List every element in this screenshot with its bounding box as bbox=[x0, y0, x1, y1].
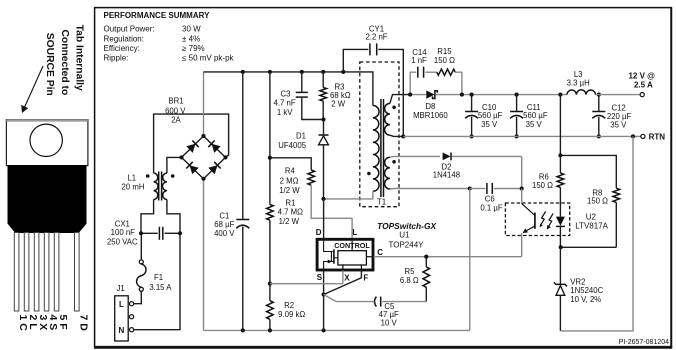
wire CX1 to L1 right bbox=[167, 200, 180, 234]
svg-text:C: C bbox=[377, 248, 383, 257]
feedback takeoff bbox=[558, 95, 562, 158]
svg-text:D8: D8 bbox=[425, 102, 435, 111]
inductor L3 3.3 uH bbox=[558, 70, 595, 97]
node clamp join bbox=[321, 117, 325, 121]
bridge rectifier BR1 600 V 2A bbox=[165, 97, 227, 181]
svg-text:10 V, 2%: 10 V, 2% bbox=[570, 295, 601, 304]
svg-text:150 Ω: 150 Ω bbox=[434, 56, 455, 65]
svg-text:9.09 kΩ: 9.09 kΩ bbox=[278, 310, 305, 319]
node R4 tap bbox=[268, 156, 272, 160]
wire R4 to L pin bbox=[311, 185, 352, 238]
IC U1 TOP244Y TOPSwitch-GX block bbox=[317, 239, 373, 270]
TO-220 package tab note text bbox=[44, 25, 84, 96]
svg-text:6.8 Ω: 6.8 Ω bbox=[400, 276, 419, 285]
svg-text:N: N bbox=[119, 326, 125, 335]
svg-text:C6: C6 bbox=[485, 194, 495, 203]
TO-220 package tab bbox=[6, 120, 88, 166]
node CY1-RTN junction bbox=[401, 134, 405, 138]
resistor R5 6.8 ohm bbox=[400, 257, 430, 302]
capacitor C12 220 uF 35 V bbox=[592, 93, 631, 139]
svg-text:Tab Internally: Tab Internally bbox=[74, 25, 85, 91]
svg-text:C3: C3 bbox=[281, 89, 291, 98]
svg-text:Efficiency:: Efficiency: bbox=[104, 44, 140, 53]
svg-text:35 V: 35 V bbox=[481, 120, 498, 129]
svg-text:35 V: 35 V bbox=[526, 120, 543, 129]
svg-text:T1: T1 bbox=[377, 197, 387, 206]
wire CY1 to RTN bbox=[378, 49, 403, 136]
wire J1 L to fuse bbox=[134, 291, 142, 303]
TO-220 body bbox=[8, 166, 86, 233]
zener VR2 1N5240C bbox=[554, 247, 604, 331]
svg-text:TOPSwitch-GX: TOPSwitch-GX bbox=[377, 221, 436, 231]
RTN rail and terminal bbox=[403, 132, 665, 141]
svg-text:R4: R4 bbox=[285, 167, 296, 176]
svg-text:0.1 µF: 0.1 µF bbox=[480, 203, 502, 212]
pin labels 1C 2L 3X 4S 5F 7D bbox=[17, 315, 89, 332]
resistor R2 9.09 kohm bbox=[267, 301, 306, 331]
resistor R1 4.7 Mohm 1/2 W bbox=[267, 72, 304, 301]
svg-text:L1: L1 bbox=[127, 173, 136, 182]
svg-text:12 V @: 12 V @ bbox=[628, 71, 655, 80]
svg-text:400 V: 400 V bbox=[214, 229, 235, 238]
node X tap bbox=[268, 282, 272, 286]
svg-text:U2: U2 bbox=[586, 213, 597, 222]
resistor R4 2 Mohm 1/2 W bbox=[270, 158, 315, 195]
node snubber junctions bbox=[408, 93, 464, 97]
svg-text:2 MΩ: 2 MΩ bbox=[280, 177, 299, 186]
wire fuse to CX1 bbox=[140, 233, 142, 260]
resistor R6 150 ohm bbox=[532, 155, 564, 190]
svg-text:F: F bbox=[363, 273, 368, 282]
svg-text:≥ 79%: ≥ 79% bbox=[182, 44, 205, 53]
svg-text:D1: D1 bbox=[296, 132, 306, 141]
svg-text:7 D: 7 D bbox=[77, 315, 89, 332]
svg-text:35 V: 35 V bbox=[610, 121, 627, 130]
svg-text:2.5 A: 2.5 A bbox=[634, 80, 653, 89]
diode D2 1N4148 bbox=[433, 153, 522, 189]
transformer T1 box bbox=[360, 62, 399, 207]
capacitor C1 68 uF 400 V bbox=[214, 72, 249, 331]
capacitor CY1 2.2 nF bbox=[343, 25, 387, 72]
svg-text:5 F: 5 F bbox=[57, 315, 69, 331]
diode D1 UF4005 bbox=[278, 120, 328, 199]
junction CX1 left bbox=[139, 231, 143, 235]
svg-text:4.7 MΩ: 4.7 MΩ bbox=[278, 208, 303, 217]
fuse F1 3.15 A bbox=[137, 260, 173, 292]
svg-text:U1: U1 bbox=[399, 230, 410, 239]
wire bias return bbox=[469, 189, 471, 331]
T1 bias winding bbox=[385, 156, 470, 189]
svg-text:10 V: 10 V bbox=[381, 318, 398, 327]
svg-text:250 VAC: 250 VAC bbox=[107, 237, 138, 246]
U1 pin labels bbox=[316, 228, 384, 283]
svg-text:≤ 50 mV pk-pk: ≤ 50 mV pk-pk bbox=[182, 54, 235, 63]
TO-220 mounting hole bbox=[30, 124, 62, 156]
svg-text:150 Ω: 150 Ω bbox=[532, 181, 553, 190]
svg-text:Output Power:: Output Power: bbox=[104, 25, 155, 34]
T1 secondary winding bbox=[385, 95, 411, 137]
wire X pin bbox=[270, 271, 343, 284]
optocoupler U2 LTV817A bbox=[505, 203, 608, 236]
capacitor C10 560 uF 35 V bbox=[465, 93, 503, 139]
svg-text:MBR1060: MBR1060 bbox=[413, 111, 448, 120]
wire drain bbox=[321, 197, 325, 239]
svg-text:PERFORMANCE SUMMARY: PERFORMANCE SUMMARY bbox=[104, 11, 211, 20]
wire primary bottom to drain node bbox=[324, 191, 373, 199]
svg-text:30 W: 30 W bbox=[182, 25, 201, 34]
wire L1 left to bridge right vertex bbox=[154, 114, 229, 173]
snubber R15 150 ohm bbox=[434, 47, 462, 95]
svg-text:1/2 W: 1/2 W bbox=[279, 217, 300, 226]
svg-text:1 kV: 1 kV bbox=[277, 108, 293, 117]
svg-text:L: L bbox=[352, 228, 357, 237]
svg-text:R5: R5 bbox=[405, 267, 416, 276]
svg-text:1/2 W: 1/2 W bbox=[279, 186, 300, 195]
svg-text:UF4005: UF4005 bbox=[278, 141, 306, 150]
capacitor C3 4.7 nF 1 kV bbox=[274, 72, 324, 120]
U1 internal links bbox=[343, 241, 372, 270]
svg-text:J1: J1 bbox=[116, 284, 124, 293]
svg-text:Regulation:: Regulation: bbox=[104, 34, 144, 43]
opto LED bbox=[556, 187, 565, 247]
choke L1 20 mH bbox=[122, 172, 175, 201]
junction CX1 right bbox=[178, 231, 182, 235]
opto light arrows bbox=[540, 212, 554, 230]
svg-text:2.2 nF: 2.2 nF bbox=[365, 33, 387, 42]
performance summary text bbox=[104, 11, 235, 63]
svg-text:Connected to: Connected to bbox=[59, 30, 70, 96]
svg-text:CX1: CX1 bbox=[115, 219, 130, 228]
svg-text:R1: R1 bbox=[285, 199, 295, 208]
capacitor CX1 100 nF 250 VAC bbox=[107, 219, 180, 246]
wire bridge minus to bottom rail bbox=[203, 181, 205, 331]
svg-text:L: L bbox=[119, 300, 124, 309]
wire source to S node bbox=[322, 271, 326, 331]
wire CX1 to L1 left bbox=[141, 200, 154, 234]
wire bridge plus to top rail bbox=[203, 72, 205, 134]
capacitor C5 47 uF 10 V bbox=[324, 295, 427, 328]
svg-text:1 nF: 1 nF bbox=[411, 56, 427, 65]
svg-text:150 Ω: 150 Ω bbox=[587, 197, 608, 206]
wire zener return to RTN bbox=[560, 136, 633, 331]
T1 core bbox=[381, 99, 384, 197]
capacitor C6 0.1 uF bbox=[468, 183, 524, 212]
bottom DC- rail bbox=[204, 328, 470, 332]
connector J1 bbox=[115, 284, 134, 341]
wire L1 right to bridge left vertex bbox=[167, 157, 182, 173]
svg-text:D: D bbox=[316, 228, 322, 237]
top DC+ rail bbox=[204, 70, 373, 106]
svg-text:TOP244Y: TOP244Y bbox=[389, 240, 425, 249]
U1 internal MOSFET bbox=[324, 241, 338, 270]
svg-text:LTV817A: LTV817A bbox=[575, 221, 608, 230]
svg-text:3.3 µH: 3.3 µH bbox=[567, 79, 590, 88]
svg-text:2A: 2A bbox=[171, 116, 181, 125]
svg-text:X: X bbox=[344, 273, 350, 282]
svg-text:BR1: BR1 bbox=[168, 97, 183, 106]
svg-text:± 4%: ± 4% bbox=[182, 34, 200, 43]
opto phototransistor bbox=[522, 189, 535, 257]
svg-text:1N5240C: 1N5240C bbox=[570, 286, 603, 295]
resistor R8 150 ohm bbox=[559, 155, 620, 249]
wire J1 N to CX1 bbox=[134, 233, 180, 329]
snubber C14 1 nF bbox=[410, 48, 437, 95]
capacitor C11 560 uF 35 V bbox=[510, 93, 548, 139]
svg-text:100 nF: 100 nF bbox=[111, 228, 136, 237]
svg-text:68 kΩ: 68 kΩ bbox=[330, 91, 351, 100]
svg-text:RTN: RTN bbox=[649, 132, 666, 141]
U1 name labels bbox=[377, 221, 436, 250]
wire F pin to S node bbox=[324, 271, 362, 295]
svg-text:3.15 A: 3.15 A bbox=[149, 283, 172, 292]
resistor R3 68 kohm 2 W bbox=[320, 72, 351, 120]
svg-text:4.7 nF: 4.7 nF bbox=[274, 99, 296, 108]
svg-text:C1: C1 bbox=[219, 211, 229, 220]
T1 primary winding bbox=[367, 106, 379, 192]
svg-text:1N4148: 1N4148 bbox=[433, 171, 460, 180]
svg-text:PI-2657-081204: PI-2657-081204 bbox=[619, 339, 669, 346]
svg-text:R15: R15 bbox=[437, 47, 452, 56]
svg-text:SOURCE Pin: SOURCE Pin bbox=[44, 33, 55, 96]
wire C pin bbox=[374, 255, 522, 259]
svg-text:600 V: 600 V bbox=[165, 107, 186, 116]
svg-text:Ripple:: Ripple: bbox=[104, 54, 129, 63]
svg-text:R2: R2 bbox=[284, 301, 294, 310]
12 V output terminal bbox=[596, 71, 656, 96]
svg-text:20 mH: 20 mH bbox=[122, 183, 145, 192]
arrow to tab bbox=[21, 66, 43, 113]
svg-text:2 W: 2 W bbox=[331, 100, 346, 109]
TO-220 pins bbox=[14, 233, 79, 312]
svg-text:F1: F1 bbox=[154, 273, 163, 282]
svg-text:68 µF: 68 µF bbox=[214, 220, 234, 229]
svg-text:S: S bbox=[317, 273, 323, 282]
diode D8 MBR1060 bbox=[410, 90, 567, 120]
figure number PI-2657-081204 bbox=[619, 339, 669, 346]
